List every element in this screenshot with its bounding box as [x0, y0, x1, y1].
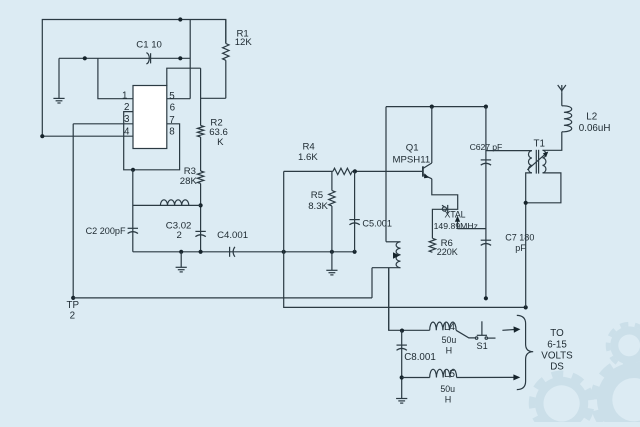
switch S1 contacts	[475, 337, 477, 339]
svg-text:K: K	[217, 137, 224, 148]
transistor Q1 MPSH11	[422, 166, 424, 176]
svg-text:L5: L5	[444, 369, 455, 380]
svg-text:6-15: 6-15	[547, 340, 567, 351]
wire L2 to T1 secondary	[543, 134, 562, 150]
op-amp U1 (8-pin IC body)	[133, 86, 167, 149]
node dot C5 bottom	[353, 250, 357, 254]
wire collector top rail	[386, 106, 486, 108]
wire pin 2 loop to pin 7	[124, 112, 180, 170]
node dot T1 loop	[524, 201, 528, 205]
svg-text:28K: 28K	[180, 176, 198, 187]
resistor R6	[429, 238, 435, 252]
T1 adjust arrow	[527, 154, 545, 170]
node dot C5 junction	[353, 169, 357, 173]
wire pin 1 branch	[98, 58, 133, 98]
svg-text:C5.001: C5.001	[362, 219, 392, 229]
svg-text:R4: R4	[303, 142, 316, 153]
crystal XTAL	[442, 207, 446, 211]
wire pin2-loop branch down	[132, 170, 134, 252]
arrow to battery positive	[502, 329, 514, 332]
svg-text:1.6K: 1.6K	[298, 152, 318, 163]
wire R3 to bottom net	[200, 184, 202, 252]
capacitor C5	[349, 219, 359, 221]
svg-text:12K: 12K	[235, 37, 253, 48]
capacitor C8 branch	[401, 330, 403, 398]
svg-text:2: 2	[177, 230, 182, 241]
wire oscillator left riser	[284, 171, 526, 307]
arrow to battery negative	[513, 374, 520, 380]
node dot rail B end	[524, 305, 528, 309]
node junction dot pin2 loop	[131, 168, 135, 172]
svg-text:6: 6	[170, 103, 176, 114]
capacitor C5 branch	[354, 171, 356, 251]
wire R2-R3 column	[200, 137, 202, 171]
svg-text:0.06uH: 0.06uH	[579, 123, 611, 134]
node dot C7 column end	[484, 296, 488, 300]
capacitor C7	[481, 239, 491, 241]
wire L5 to arrow	[457, 376, 514, 378]
capacitor C8	[397, 344, 407, 346]
switch S1 pole	[481, 321, 483, 335]
inductor L5	[430, 369, 457, 377]
node dot C6 rail end	[484, 105, 488, 109]
ground G4	[396, 398, 407, 400]
capacitor C2	[128, 227, 138, 229]
wire C6 column	[485, 107, 487, 299]
wire pin 4 from left rail	[42, 135, 133, 137]
svg-text:H: H	[445, 394, 452, 404]
node dot gnd branch	[179, 250, 183, 254]
svg-text:4: 4	[124, 127, 130, 138]
capacitor C3	[195, 230, 205, 232]
svg-text:50u: 50u	[440, 384, 455, 394]
svg-text:C4.001: C4.001	[217, 230, 248, 241]
wire test point riser TP	[72, 124, 74, 298]
svg-text:XTAL: XTAL	[445, 210, 466, 220]
svg-text:R5: R5	[311, 190, 323, 201]
wire ground stub R5	[331, 252, 333, 270]
wire pin 5 box to R2 column	[167, 68, 201, 86]
inductor L3 tapped coil	[386, 241, 401, 243]
wire tank riser	[385, 107, 387, 242]
svg-text:DS: DS	[550, 361, 564, 372]
capacitor C4	[229, 247, 231, 257]
wire ground stub mid	[180, 252, 182, 267]
resistor R3	[197, 171, 203, 183]
node TP dot	[71, 296, 75, 300]
brace battery	[517, 315, 533, 389]
svg-text:5: 5	[169, 91, 175, 102]
node dot R3 column bottom	[199, 250, 203, 254]
wire XTAL to C7 column	[458, 228, 486, 230]
node junction dot on C1 wire (pin5 branch)	[178, 56, 182, 60]
node junction dot on top wire	[178, 17, 182, 21]
wire top rail (V+ top)	[42, 20, 226, 137]
wire coil tap to L4	[389, 268, 430, 331]
transformer T1	[528, 151, 531, 173]
wire C6 top to T1 primary	[486, 150, 532, 152]
wire Q1 emitter to XTAL	[432, 179, 458, 239]
wire coil to rail A	[371, 268, 373, 298]
svg-text:50u: 50u	[442, 335, 457, 345]
wire rail B riser crossing	[388, 268, 390, 331]
resistor R1	[225, 20, 227, 44]
resistor R5	[331, 171, 333, 190]
wire C1 net	[59, 57, 190, 59]
svg-text:H: H	[446, 346, 453, 356]
node dot C8 top	[400, 329, 404, 333]
svg-text:Q1: Q1	[406, 142, 419, 153]
inductor L5 wire	[402, 377, 430, 379]
resistor R2	[197, 126, 203, 138]
node dot Q1 collector rail	[430, 105, 434, 109]
svg-text:1: 1	[122, 91, 127, 102]
svg-text:MPSH11: MPSH11	[393, 155, 431, 166]
ground G2	[176, 266, 187, 268]
svg-text:pF: pF	[515, 243, 526, 253]
svg-text:L4: L4	[444, 322, 455, 333]
svg-text:2: 2	[70, 310, 75, 321]
svg-text:T1: T1	[534, 138, 545, 149]
wire S1 to arrow	[488, 337, 496, 339]
switch S1 lever	[456, 330, 475, 338]
node junction dot left rail / pin4	[40, 134, 44, 138]
svg-text:8: 8	[169, 127, 175, 138]
wire riser pin5 to top rail	[189, 20, 191, 99]
wire rail A (TP net)	[73, 297, 372, 299]
ground G3	[326, 269, 337, 271]
svg-text:8.3K: 8.3K	[308, 201, 328, 212]
svg-text:149.89MHz: 149.89MHz	[434, 221, 478, 231]
svg-text:220K: 220K	[437, 247, 458, 257]
svg-text:TO: TO	[550, 328, 564, 339]
svg-text:S1: S1	[477, 341, 488, 351]
svg-text:C1 10: C1 10	[136, 40, 162, 51]
antenna	[561, 85, 563, 93]
capacitor C1	[146, 53, 149, 64]
svg-text:C7 180: C7 180	[505, 233, 534, 243]
wire T1 primary bottom to rail B	[526, 173, 532, 308]
tap arrow	[393, 252, 400, 258]
wire R4 to Q1 base	[352, 170, 423, 172]
svg-text:VOLTS: VOLTS	[541, 351, 573, 362]
wire R2 column	[200, 68, 202, 125]
arrow up to crystal	[457, 221, 459, 229]
node dot oscillator rail	[282, 250, 286, 254]
wire main bottom net	[133, 251, 355, 253]
node junction dot on C1 wire (gnd branch)	[83, 56, 87, 60]
node dot R5 bottom	[330, 250, 334, 254]
inductor L2	[561, 93, 563, 106]
wire R4 base net	[284, 170, 333, 172]
svg-text:C8.001: C8.001	[404, 352, 436, 363]
inductor L1 wire	[133, 204, 201, 206]
node junction dot inductor tap	[199, 203, 203, 207]
capacitor C6	[481, 159, 491, 161]
wire pin 3 net	[73, 123, 133, 125]
svg-text:L2: L2	[586, 111, 597, 122]
node dot C8 bottom / L5	[400, 375, 404, 379]
svg-text:C2 200pF: C2 200pF	[86, 226, 126, 236]
resistor R4	[333, 168, 352, 174]
inductor L1	[160, 200, 188, 206]
wire pin 5 to vertical riser	[167, 98, 190, 100]
wire T1 secondary loop	[526, 173, 561, 203]
inductor L4	[430, 322, 456, 330]
ground G1	[53, 97, 64, 99]
wire ground stub top-left	[58, 58, 60, 98]
